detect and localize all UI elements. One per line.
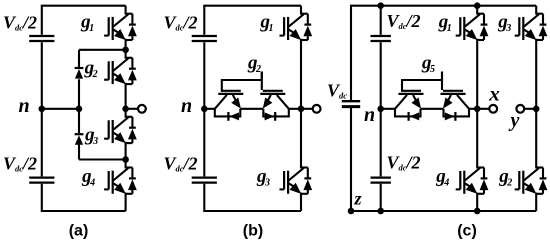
junction g3-g4 (a): [122, 156, 129, 163]
svg-text:(b): (b): [243, 223, 263, 240]
wire output stub (b): [301, 108, 312, 110]
capacitor Vdc (c): [342, 100, 360, 102]
junction output (a): [122, 106, 129, 113]
wire cap rail (c): [380, 6, 382, 35]
junction leg1 top (c): [474, 2, 481, 9]
wire bottom rail (a): [41, 210, 126, 212]
svg-text:n: n: [364, 104, 375, 126]
IGBT g3 (c): [535, 6, 537, 15]
wire top rail (b): [203, 5, 301, 7]
svg-text:y: y: [509, 109, 520, 131]
svg-text:(c): (c): [457, 223, 477, 240]
wire clamp column upper (a): [78, 50, 80, 67]
node z (c): [348, 208, 355, 215]
wire clamp bottom link (a): [79, 158, 126, 160]
IGBT g1 (a): [125, 6, 127, 15]
svg-text:z: z: [354, 189, 362, 209]
wire n to bidi switch (b): [204, 108, 215, 110]
wire bidi to leg (b): [288, 108, 301, 110]
IGBT g2 (c): [535, 109, 537, 160]
IGBT g2 (a): [125, 50, 127, 59]
wire top rail (c): [350, 5, 536, 7]
IGBT g1 (b): [300, 6, 302, 15]
diode D5 clamp upper (a): [75, 67, 84, 69]
node n (c): [377, 106, 384, 113]
junction leg1 bottom (c): [474, 208, 481, 215]
terminal y (c): [516, 105, 524, 113]
wire x stub (c): [477, 108, 489, 110]
node n (b): [201, 106, 208, 113]
junction cap rail top (c): [377, 2, 384, 9]
junction leg2 mid (c): [533, 106, 540, 113]
junction clamp mid (a): [76, 106, 83, 113]
wire top rail (a): [41, 5, 126, 7]
junction leg1 mid x (c): [474, 106, 481, 113]
bidirectional switch g5 (c): [401, 90, 421, 92]
wire left DC rail (b): [203, 6, 205, 35]
capacitor C2 (a) Vdc/2 bottom: [29, 176, 54, 178]
svg-text:n: n: [181, 95, 192, 117]
wire bottom rail (c): [350, 210, 536, 212]
svg-text:(a): (a): [69, 223, 89, 240]
capacitor C1 (a) Vdc/2 top: [29, 35, 54, 37]
capacitor C2 (b) Vdc/2 bottom: [192, 176, 217, 178]
capacitor C1 (c) Vdc/2 top: [371, 35, 391, 37]
junction g1-g2 (a): [122, 47, 129, 54]
terminal x (c): [489, 105, 497, 113]
wire n to bidi switch (c): [381, 108, 396, 110]
bidirectional switch g2 (b): [221, 90, 241, 92]
wire n to clamp column (a): [42, 108, 79, 110]
svg-text:n: n: [19, 95, 30, 117]
IGBT g3 (b): [300, 109, 302, 160]
diode D6 clamp lower (a): [75, 133, 84, 135]
wire clamp top link (a): [79, 49, 126, 51]
IGBT g4 (c): [476, 109, 478, 160]
capacitor C1 (b) Vdc/2 top: [192, 35, 217, 37]
panel (a) diode-clamped leg: [3, 6, 146, 240]
wire y stub (c): [525, 108, 536, 110]
wire output stub (a): [126, 108, 138, 110]
terminal output (a): [138, 105, 146, 113]
wire far-left DC rail (c): [350, 6, 352, 101]
wire bidi to leg1 (c): [469, 108, 478, 110]
IGBT g1 (c): [476, 6, 478, 15]
wire clamp column lower (a): [78, 144, 80, 159]
junction output (b): [298, 106, 305, 113]
panel (b) T-type leg: [164, 6, 321, 240]
wire left DC rail (a): [41, 6, 43, 35]
IGBT g3 (a): [125, 109, 127, 118]
node n (a): [39, 106, 46, 113]
capacitor C2 (c) Vdc/2 bottom: [371, 176, 391, 178]
IGBT g4 (a): [125, 160, 127, 169]
svg-text:x: x: [488, 82, 500, 106]
wire bottom rail (b): [203, 210, 301, 212]
junction cap rail bottom (c): [377, 208, 384, 215]
terminal output (b): [313, 105, 321, 113]
panel (c) hybrid two-leg converter: [327, 2, 547, 239]
